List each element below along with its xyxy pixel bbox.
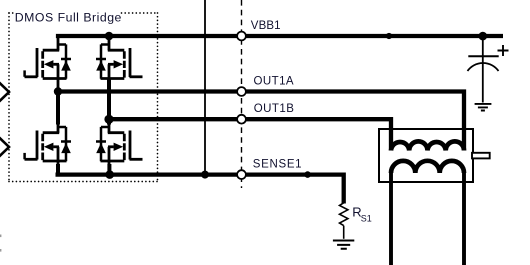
capacitor C1 curved plate [468, 63, 499, 71]
terminal OUT1A [237, 87, 246, 96]
svg-text:OUT1B: OUT1B [254, 103, 295, 115]
svg-text:SENSE1: SENSE1 [253, 159, 302, 171]
terminal OUT1B [237, 115, 246, 124]
ground (resistor) [333, 241, 354, 249]
motor body [379, 129, 473, 182]
junction node sense rail / M4 source [105, 170, 114, 179]
node arrow (gate drive 2, cropped) [0, 138, 9, 155]
junction node OUT1A / left column [54, 87, 62, 95]
junction node VBB1 small tap [386, 33, 392, 39]
resistor RS1 zigzag [340, 203, 348, 226]
capacitor C1 lead [482, 36, 484, 103]
wire OUT1A [58, 92, 464, 151]
terminal VBB1 [237, 32, 246, 41]
transistor M2 (top-right high side, mirrored) [96, 36, 143, 92]
svg-text:S1: S1 [361, 214, 372, 224]
svg-text:OUT1A: OUT1A [254, 75, 295, 87]
motor winding 1 (phase 1) [391, 141, 464, 150]
wire: bottom-left source link to sense rail [56, 164, 60, 175]
wire: internal sense feedback (thin vertical) [204, 0, 206, 175]
svg-text:DMOS Full Bridge: DMOS Full Bridge [15, 10, 122, 24]
junction node VBB1 / capacitor tap [479, 32, 488, 41]
wire OUT1B [109, 119, 391, 150]
terminal SENSE1 [237, 170, 246, 179]
transistor M3 (bottom-left low side) [25, 119, 72, 175]
dashed chip boundary line [241, 0, 243, 188]
gate tick M1 [23, 70, 26, 76]
ground (capacitor) [475, 104, 492, 111]
plus polarity mark [498, 45, 509, 56]
capacitor C1 top plate [468, 55, 498, 57]
svg-text:VBB1: VBB1 [251, 20, 281, 32]
wire: left column drain link M3 [56, 92, 60, 125]
motor lead left (to OUT2, cropped) [389, 173, 393, 265]
transistor M1 (top-left high side) [25, 36, 72, 92]
transistor M4 (bottom-right low side, mirrored) [96, 119, 143, 175]
motor lead right (to OUT2, cropped) [462, 173, 466, 265]
motor shaft stub [472, 153, 490, 159]
wire: right column source link M2 [107, 78, 111, 125]
dotted box: DMOS Full Bridge boundary [9, 13, 158, 182]
gate tick M3 [23, 153, 26, 159]
wire SENSE1 rail [56, 175, 344, 204]
node arrow (gate drive 1, cropped) [0, 83, 9, 100]
wire VBB1 rail [56, 34, 503, 38]
wire: bottom-right source link to sense rail [107, 164, 111, 175]
junction node at M2 drain / VBB rail [105, 32, 114, 41]
junction node sense rail / feedback line [201, 171, 209, 179]
motor winding 2 (phase 2) [391, 161, 464, 173]
junction node OUT1B / right column [104, 115, 113, 124]
junction node sense rail small tap [304, 171, 311, 178]
resistor RS1 lead [343, 226, 345, 239]
edge dot remnants [0, 235, 1, 238]
